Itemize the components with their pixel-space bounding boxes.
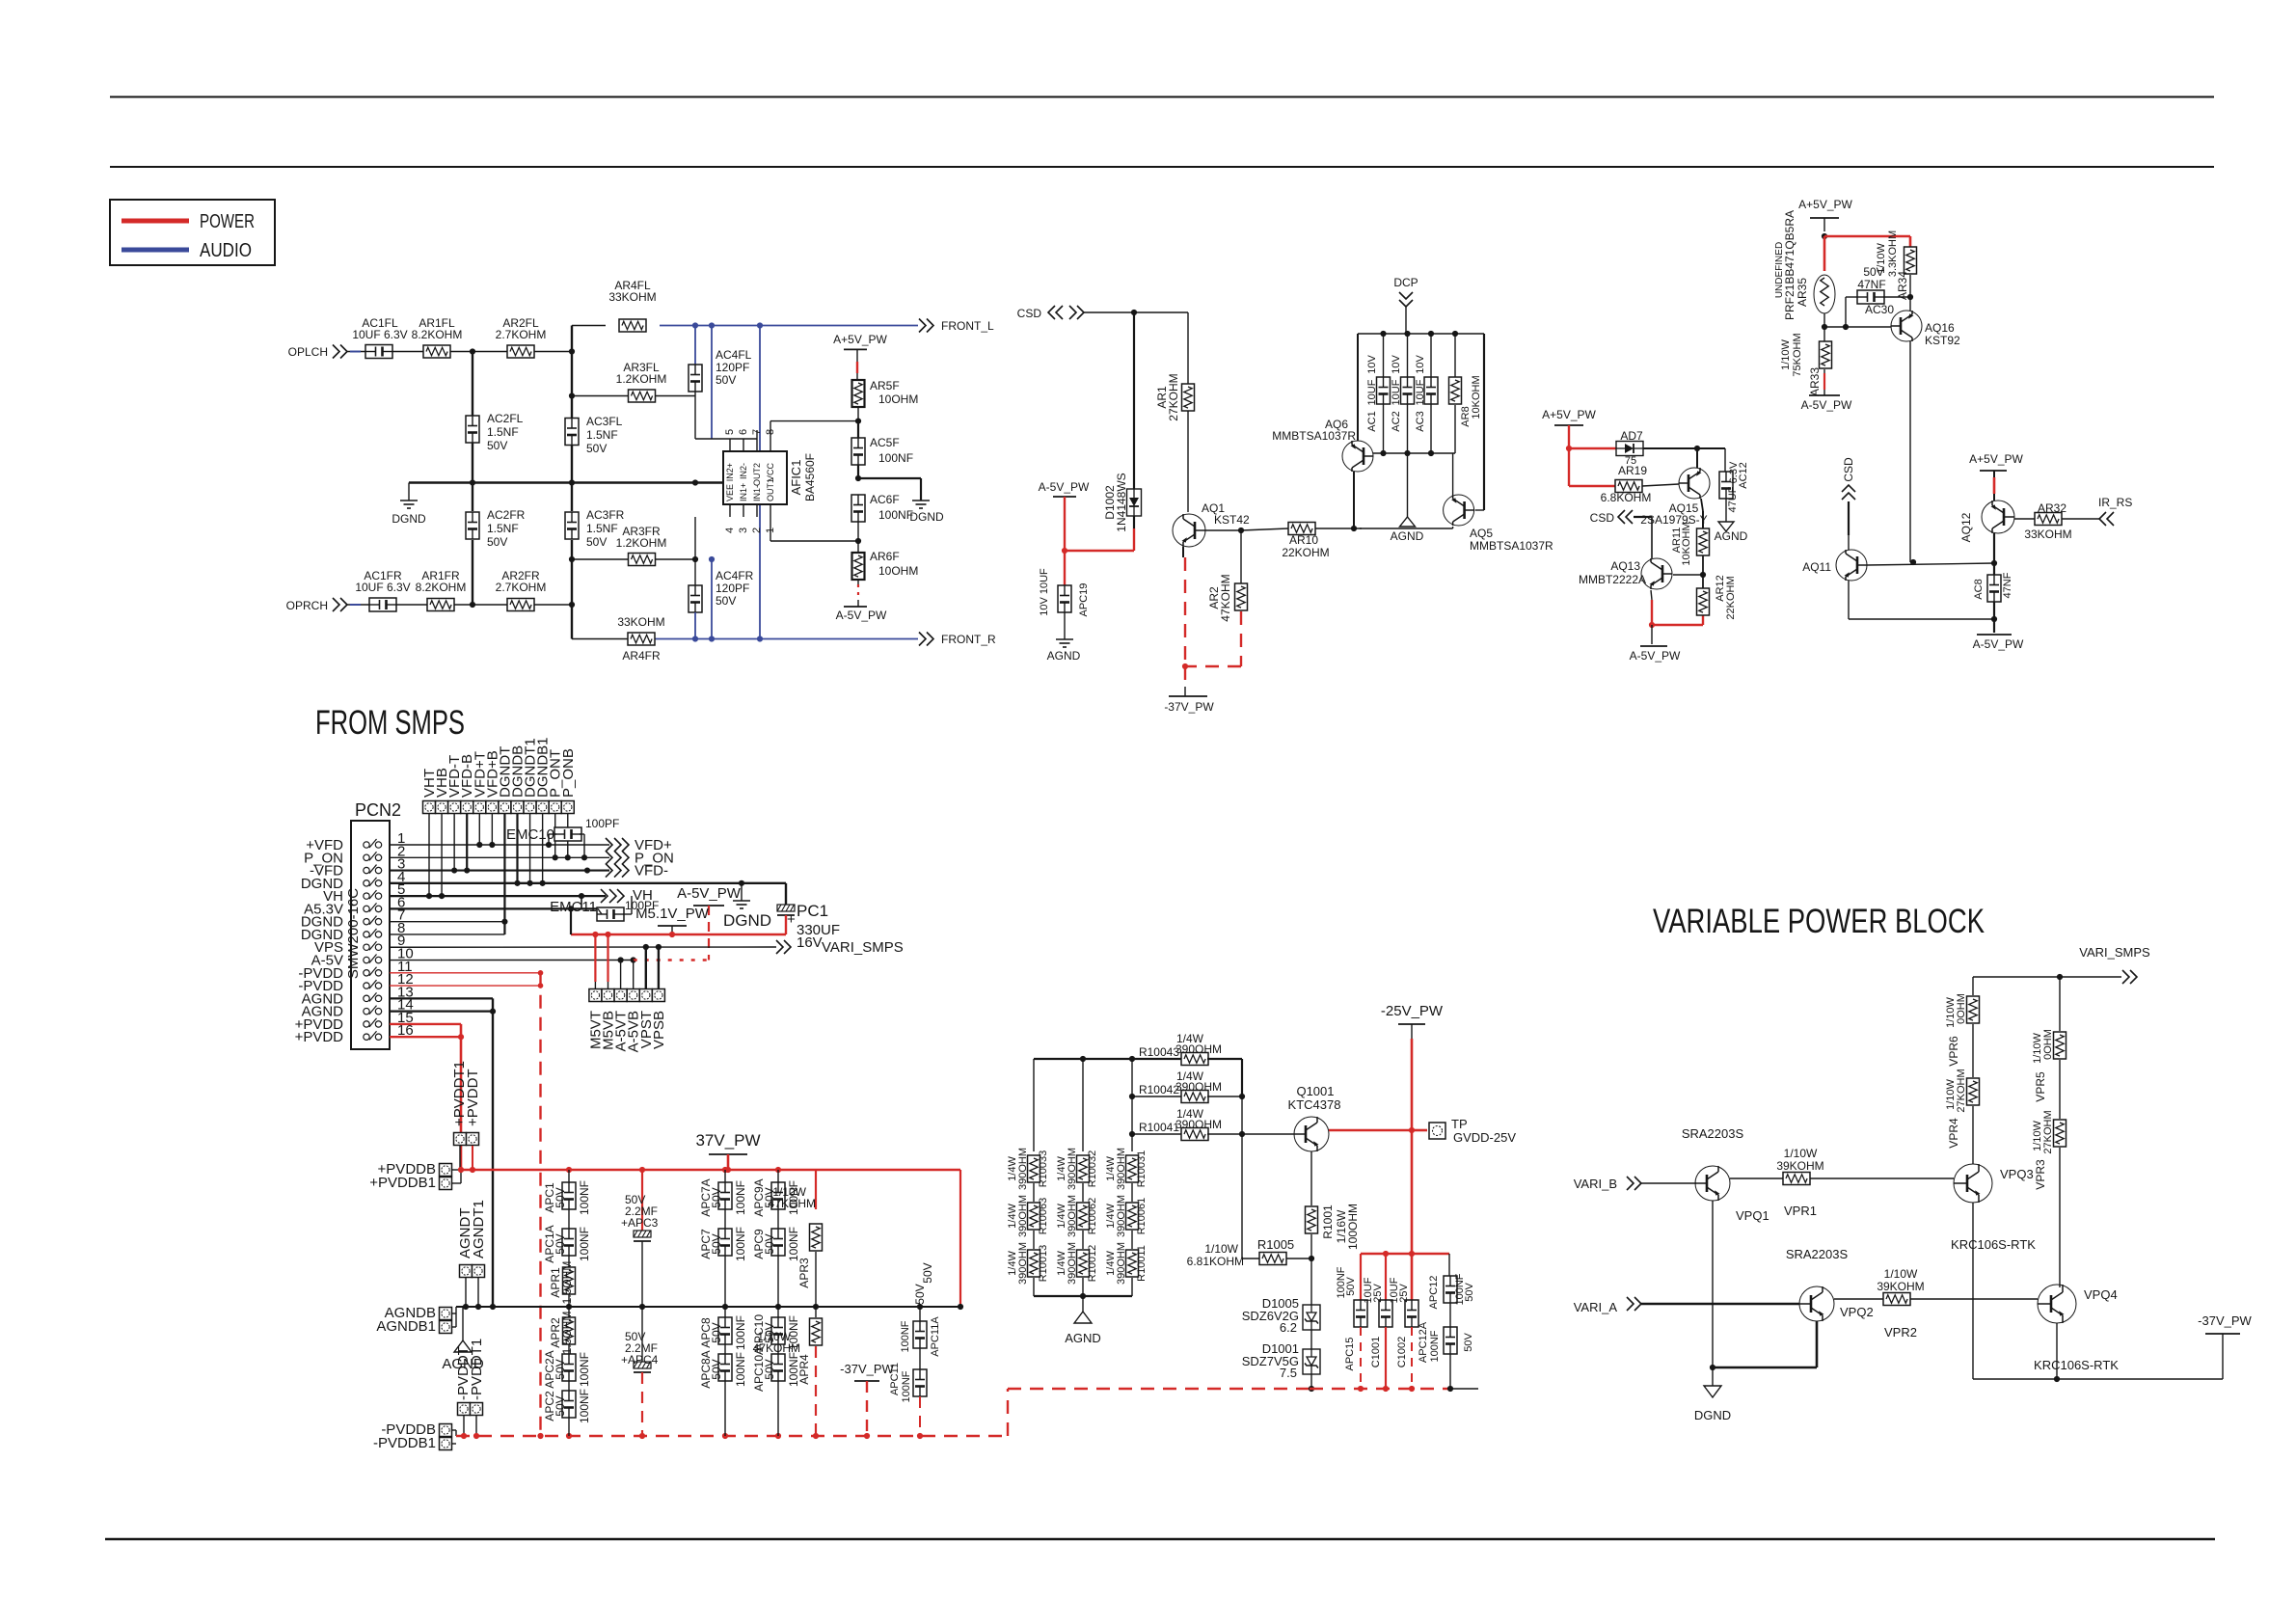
svg-text:R10063: R10063 — [1038, 1198, 1049, 1235]
ground DGND right — [909, 501, 944, 524]
wire Q1001 emitter red to TP — [1329, 1127, 1427, 1133]
wire AQ1 emitter dashes — [1182, 547, 1188, 696]
capacitor APC9A column — [752, 1170, 800, 1307]
wire VPB bottom rail — [1973, 1378, 2223, 1380]
svg-text:3: 3 — [738, 528, 749, 533]
svg-text:Q1001: Q1001 — [1296, 1084, 1334, 1098]
svg-text:AD7: AD7 — [1620, 429, 1643, 443]
capacitor APC10 column — [752, 1307, 800, 1436]
svg-text:AC1: AC1 — [1366, 411, 1378, 431]
svg-text:10OHM: 10OHM — [878, 392, 918, 406]
svg-text:CSD: CSD — [1590, 511, 1615, 525]
legend POWER red line — [122, 211, 255, 232]
svg-text:1.5NF: 1.5NF — [586, 428, 618, 442]
svg-text:MMBTSA1037R: MMBTSA1037R — [1470, 539, 1553, 553]
resistor R10041 — [1129, 1096, 1294, 1151]
wire AQ12 base to AR32 — [2014, 518, 2035, 520]
transistor VPQ1 — [1682, 1126, 1769, 1223]
wire red cap rail — [1361, 1251, 1449, 1300]
resistor APR2 column — [543, 1307, 591, 1436]
svg-text:AR19: AR19 — [1618, 464, 1647, 477]
svg-text:A-5V_PW: A-5V_PW — [1973, 637, 2024, 651]
node IR_RS — [2062, 496, 2132, 526]
wire red rail M5V — [568, 906, 786, 937]
svg-text:1.5NF: 1.5NF — [586, 522, 618, 535]
power A-5V_PW AQ13 — [1630, 625, 1681, 663]
ground AGND AC12 — [1715, 522, 1748, 543]
svg-text:10OHM: 10OHM — [878, 564, 918, 578]
svg-text:A-5V_PW: A-5V_PW — [1801, 398, 1852, 412]
svg-text:AQ5: AQ5 — [1470, 527, 1493, 540]
wire pin row 10 A-5V — [390, 957, 636, 962]
node VARI_SMPS left — [776, 939, 904, 956]
svg-text:-37V_PW: -37V_PW — [2198, 1313, 2252, 1328]
svg-text:390OHM: 390OHM — [1067, 1195, 1078, 1237]
svg-text:-37V_PW: -37V_PW — [1164, 700, 1214, 714]
wire FRONT_L rail — [572, 322, 918, 328]
power -25V_PW — [1381, 1003, 1444, 1300]
svg-text:R10032: R10032 — [1087, 1150, 1098, 1188]
ground DGND connector — [723, 883, 771, 930]
svg-text:AC3FR: AC3FR — [586, 508, 625, 522]
connector +PVDDT pair — [451, 1061, 481, 1170]
wire VPQ3 emitter — [1972, 1203, 1974, 1379]
svg-text:VARIABLE POWER BLOCK: VARIABLE POWER BLOCK — [1653, 903, 1985, 940]
ground AGND APC19 — [1047, 639, 1081, 663]
svg-text:OPRCH: OPRCH — [286, 599, 328, 612]
svg-text:100NF: 100NF — [787, 1227, 800, 1261]
svg-text:390OHM: 390OHM — [1017, 1195, 1029, 1237]
capacitor APC1 column — [543, 1170, 591, 1307]
svg-text:8.2KOHM: 8.2KOHM — [412, 328, 463, 341]
wire AQ12 collector down — [1993, 533, 1995, 576]
svg-text:100NF: 100NF — [901, 1370, 912, 1402]
svg-text:APC19: APC19 — [1078, 583, 1090, 617]
node VFD- — [606, 863, 668, 880]
svg-text:AQ12: AQ12 — [1959, 512, 1973, 542]
resistor AR11 10KOHM — [1671, 522, 1710, 565]
resistor AR2FR — [496, 569, 547, 611]
wire pin row 3 -VFD — [390, 867, 609, 873]
svg-text:AFIC1: AFIC1 — [789, 460, 803, 496]
svg-text:DGND: DGND — [1694, 1408, 1731, 1422]
svg-text:47KOHM: 47KOHM — [769, 1197, 816, 1210]
svg-text:7.5: 7.5 — [1280, 1366, 1297, 1380]
svg-text:100NF: 100NF — [578, 1180, 591, 1215]
wire DCP bottom rail — [1373, 452, 1455, 454]
svg-text:50V: 50V — [716, 373, 736, 387]
ground AGND DCP — [1391, 453, 1424, 543]
svg-text:AR32: AR32 — [2038, 501, 2066, 515]
capacitor AC30 47NF — [1846, 265, 1913, 327]
wire AGNDB black rail — [456, 1304, 963, 1310]
svg-text:AC2FR: AC2FR — [487, 508, 526, 522]
connector -PVDDT pair — [455, 1339, 485, 1436]
resistor AR34 3.3KOHM — [1876, 230, 1917, 311]
capacitor AC12 47UF — [1719, 448, 1749, 522]
svg-text:+PVDDT: +PVDDT — [465, 1069, 481, 1126]
svg-text:R10013: R10013 — [1038, 1245, 1049, 1283]
svg-text:6.2: 6.2 — [1280, 1320, 1297, 1335]
svg-text:50V: 50V — [554, 1359, 567, 1379]
resistor AR12 22KOHM — [1697, 575, 1738, 619]
svg-text:AGNDB1: AGNDB1 — [376, 1318, 436, 1335]
resistor column R10031 — [1105, 1148, 1148, 1296]
wire audio blue vertical — [759, 326, 761, 639]
svg-text:BA4560F: BA4560F — [803, 453, 817, 501]
wire red A-5V to diode — [1062, 497, 1134, 586]
power A+5V_PW AQ12 — [1969, 452, 2023, 501]
svg-text:VPR6: VPR6 — [1947, 1036, 1960, 1067]
svg-text:VPQ1: VPQ1 — [1736, 1208, 1769, 1223]
svg-text:KTC4378: KTC4378 — [1288, 1097, 1341, 1112]
capacitor AC8 47NF — [1973, 572, 2013, 602]
capacitor PC1 330UF — [777, 902, 840, 951]
svg-text:M5.1V_PW: M5.1V_PW — [635, 906, 710, 922]
ground AGND network — [1065, 1312, 1101, 1345]
resistor VPR4 — [1945, 1069, 1980, 1164]
wire to DGND right — [858, 478, 921, 501]
svg-text:39KOHM: 39KOHM — [1877, 1280, 1924, 1293]
svg-text:50V: 50V — [586, 535, 607, 549]
svg-text:33KOHM: 33KOHM — [2024, 528, 2071, 541]
wire pin row 1 +VFD — [390, 842, 609, 848]
svg-text:AGND: AGND — [1715, 529, 1748, 543]
svg-text:APC15: APC15 — [1344, 1338, 1356, 1371]
svg-text:SMW200-16C: SMW200-16C — [345, 888, 362, 979]
resistor VPR6 — [1945, 977, 1980, 1077]
resistor R10042 — [1129, 1059, 1245, 1134]
wire — [392, 351, 423, 353]
power A+5V_PW AD7 — [1542, 408, 1596, 425]
svg-text:GVDD-25V: GVDD-25V — [1453, 1130, 1516, 1145]
svg-text:VARI_SMPS: VARI_SMPS — [822, 939, 904, 956]
svg-text:10UF 6.3V: 10UF 6.3V — [352, 328, 407, 341]
svg-text:27KOHM: 27KOHM — [2042, 1110, 2054, 1153]
svg-text:VPR1: VPR1 — [1784, 1204, 1817, 1218]
power M5.1V_PW — [635, 906, 710, 934]
wire — [1064, 612, 1066, 639]
wire AR33 red bottom — [1823, 369, 1825, 395]
connector AGNDB pair — [376, 1305, 456, 1335]
svg-text:A+5V_PW: A+5V_PW — [1798, 198, 1852, 211]
wire CSD — [1084, 310, 1188, 315]
svg-text:1.5OHM: 1.5OHM — [560, 1261, 574, 1305]
legend AUDIO blue line — [122, 240, 252, 261]
svg-text:FROM SMPS: FROM SMPS — [315, 704, 465, 742]
capacitor APC11 — [889, 1348, 927, 1436]
svg-text:-25V_PW: -25V_PW — [1381, 1003, 1444, 1019]
svg-text:8.2KOHM: 8.2KOHM — [416, 581, 467, 594]
capacitor AC4FR — [689, 559, 754, 639]
svg-text:390OHM: 390OHM — [1017, 1242, 1029, 1285]
svg-text:AR6F: AR6F — [870, 550, 900, 563]
wire pin rows 7 8 DGND — [390, 919, 508, 934]
svg-text:390OHM: 390OHM — [1067, 1148, 1078, 1190]
svg-text:25V: 25V — [1398, 1284, 1410, 1303]
capacitor APC11A — [900, 1284, 941, 1356]
connector 6-pin M5V — [587, 989, 667, 1053]
svg-text:33KOHM: 33KOHM — [617, 615, 664, 629]
filter EMC10 — [506, 817, 619, 857]
svg-text:AGND: AGND — [1065, 1331, 1101, 1345]
wire CSD to AQ11 — [1848, 501, 1850, 550]
svg-text:AQ16: AQ16 — [1925, 321, 1955, 335]
power A-5V_PW APC19 — [1039, 480, 1090, 497]
capacitor AC3 10UF — [1415, 334, 1438, 456]
resistor AR10 22KOHM — [1282, 523, 1329, 560]
transistor Q1001 — [1288, 1084, 1341, 1151]
svg-text:AQ13: AQ13 — [1610, 559, 1640, 573]
svg-text:VPR3: VPR3 — [2034, 1159, 2047, 1190]
svg-text:AC4FL: AC4FL — [716, 348, 752, 362]
resistor APR4 — [753, 1307, 823, 1436]
svg-text:6.8KOHM: 6.8KOHM — [1601, 491, 1652, 504]
svg-text:1.2KOHM: 1.2KOHM — [616, 372, 667, 386]
svg-text:22KOHM: 22KOHM — [1282, 546, 1329, 559]
node CSD top — [1017, 306, 1084, 320]
page border bottom line — [105, 1538, 2215, 1540]
svg-text:100NF: 100NF — [578, 1389, 591, 1423]
svg-text:100NF: 100NF — [578, 1352, 591, 1387]
resistor R1005 — [1187, 1237, 1311, 1268]
resistor AR1FR — [416, 569, 467, 611]
svg-text:+APC4: +APC4 — [621, 1353, 659, 1367]
wire — [396, 604, 427, 606]
svg-text:390OHM: 390OHM — [1116, 1242, 1127, 1285]
power 37V_PW — [695, 1131, 760, 1170]
wire D1002 column — [1133, 312, 1135, 551]
svg-text:+PVDD: +PVDD — [295, 1029, 344, 1045]
svg-text:6.81KOHM: 6.81KOHM — [1187, 1255, 1244, 1268]
capacitor AC3FR — [565, 508, 625, 549]
svg-text:VPQ3: VPQ3 — [2000, 1167, 2034, 1181]
resistor AR3FR — [616, 525, 667, 566]
svg-text:IR_RS: IR_RS — [2098, 496, 2132, 509]
svg-text:1.5OHM: 1.5OHM — [560, 1312, 574, 1355]
svg-text:APC11A: APC11A — [930, 1316, 941, 1357]
wire CSD to AQ13 collector — [1634, 517, 1652, 558]
capacitor AC4FL — [689, 326, 752, 396]
svg-text:50V: 50V — [710, 1233, 723, 1254]
svg-text:AR4FR: AR4FR — [622, 649, 661, 663]
power A+5V_PW AR35 — [1798, 198, 1852, 239]
svg-text:1/10W: 1/10W — [1876, 242, 1887, 273]
filter EMC11 — [550, 896, 632, 921]
transistor AQ15 — [1640, 468, 1710, 527]
svg-text:AR10: AR10 — [1289, 533, 1318, 547]
svg-text:APR4: APR4 — [797, 1354, 811, 1385]
svg-text:AC3: AC3 — [1415, 411, 1426, 431]
wire 6pin connector drops — [595, 934, 659, 988]
svg-text:MMBTSA1037R: MMBTSA1037R — [1272, 429, 1356, 443]
svg-text:47UF: 47UF — [1727, 486, 1739, 512]
wire DCP top rail — [1358, 331, 1484, 337]
diode D1001 zener — [1242, 1341, 1320, 1392]
svg-text:0OHM: 0OHM — [2042, 1029, 2054, 1060]
svg-text:1/10W: 1/10W — [1204, 1242, 1238, 1256]
svg-text:PRF21BB471QB5RA: PRF21BB471QB5RA — [1783, 210, 1796, 320]
wire pin row 6 A5.3V to EMC11 — [390, 896, 598, 908]
svg-text:A-5V_PW: A-5V_PW — [836, 609, 887, 622]
svg-text:10KOHM: 10KOHM — [1471, 375, 1482, 419]
capacitor AC5F — [851, 421, 913, 482]
resistor AR1FL — [412, 316, 463, 358]
resistor VPR3 — [2032, 1110, 2066, 1287]
svg-text:FRONT_R: FRONT_R — [941, 633, 996, 646]
svg-text:50V: 50V — [710, 1322, 723, 1342]
wire cap bottom rail — [1310, 1386, 1478, 1392]
capacitor AC2 10UF — [1391, 355, 1415, 432]
svg-text:390OHM: 390OHM — [1175, 1118, 1222, 1131]
svg-text:AC8: AC8 — [1973, 579, 1985, 599]
svg-text:39KOHM: 39KOHM — [1776, 1159, 1823, 1173]
svg-text:AR33: AR33 — [1808, 367, 1822, 396]
svg-text:A+5V_PW: A+5V_PW — [1542, 408, 1596, 421]
wire AR35 junction to AQ16 base — [1824, 324, 1891, 330]
svg-text:VPQ4: VPQ4 — [2084, 1287, 2118, 1302]
node CSD right — [1842, 457, 1855, 500]
wire AC8 bottom rail — [1849, 581, 1997, 633]
diode D1005 zener — [1242, 1296, 1320, 1349]
svg-text:5: 5 — [724, 429, 736, 435]
svg-text:100NF: 100NF — [1429, 1330, 1441, 1362]
wire AQ11 base row — [1867, 560, 1997, 566]
svg-text:DCP: DCP — [1393, 276, 1418, 289]
ground DGND VPB — [1694, 1386, 1731, 1422]
svg-text:APC12A: APC12A — [1418, 1321, 1429, 1363]
svg-text:P_ONB: P_ONB — [560, 748, 577, 798]
wire network bottom rail — [1034, 1293, 1132, 1312]
wire AD7 to AQ15 — [1643, 446, 1725, 468]
wire FRONT_R rail — [572, 636, 918, 641]
svg-text:VPR2: VPR2 — [1884, 1325, 1917, 1340]
svg-text:VPQ2: VPQ2 — [1840, 1305, 1874, 1319]
svg-text:AC30: AC30 — [1865, 303, 1894, 316]
capacitor APC19 — [1039, 568, 1090, 616]
capacitor APC12A — [1418, 1321, 1474, 1389]
svg-text:10UF: 10UF — [1415, 379, 1426, 405]
ground DGND audio — [392, 483, 426, 527]
wire AR3FR row — [572, 517, 698, 562]
wire +PVDD red rail — [458, 1167, 960, 1307]
resistor AR33 75KOHM — [1780, 333, 1832, 396]
svg-text:100NF: 100NF — [578, 1227, 591, 1261]
capacitor APC15 — [1336, 1266, 1367, 1389]
wire -PVDD dashed rail — [456, 1389, 1310, 1439]
svg-text:100NF: 100NF — [878, 451, 913, 465]
resistor AR4FR — [617, 615, 664, 663]
transistor AQ13 — [1579, 558, 1672, 589]
svg-text:DGND: DGND — [909, 510, 944, 524]
resistor AR3FL — [616, 361, 667, 402]
transistor VPQ3 — [1951, 1164, 2036, 1252]
capacitor APC7A column — [699, 1170, 747, 1307]
svg-text:6: 6 — [738, 429, 749, 435]
svg-text:R1001: R1001 — [1321, 1204, 1335, 1239]
wire header column drops — [429, 814, 568, 934]
svg-text:75KOHM: 75KOHM — [1792, 333, 1803, 376]
transistor AQ12 — [1959, 501, 2014, 542]
svg-text:AGNDT1: AGNDT1 — [471, 1200, 487, 1259]
svg-text:R10031: R10031 — [1136, 1150, 1148, 1188]
transistor AQ16 — [1891, 311, 1960, 347]
svg-text:100NF: 100NF — [734, 1352, 747, 1387]
svg-text:-37V_PW: -37V_PW — [840, 1362, 894, 1376]
svg-text:OUT1: OUT1 — [766, 478, 775, 501]
wire pin row 2 P_ON — [390, 854, 609, 860]
svg-text:IN1+: IN1+ — [739, 483, 748, 501]
svg-text:50V: 50V — [763, 1359, 776, 1379]
wire AR35 bottom — [1822, 313, 1827, 343]
svg-text:KST92: KST92 — [1925, 334, 1960, 347]
ground AGND bank — [442, 1307, 484, 1372]
svg-text:VFD-: VFD- — [635, 863, 668, 880]
svg-text:50V: 50V — [1345, 1277, 1357, 1296]
svg-text:IN2-: IN2- — [739, 463, 748, 479]
diode AD7 — [1616, 429, 1643, 467]
connector -PVDDB pair — [373, 1421, 456, 1451]
wire chip to AR5F column — [770, 419, 861, 440]
svg-text:100OHM: 100OHM — [1346, 1204, 1360, 1250]
svg-text:EMC10: EMC10 — [506, 826, 554, 843]
power A-5V_PW connector — [677, 885, 742, 961]
capacitor AC3FL — [565, 415, 623, 455]
wire AR10 to block — [1315, 528, 1362, 529]
svg-text:R10041: R10041 — [1139, 1121, 1179, 1134]
svg-text:C1001: C1001 — [1370, 1337, 1382, 1367]
wire — [454, 602, 507, 608]
wire AR3FL row — [572, 396, 695, 440]
node FRONT_R — [919, 633, 996, 647]
capacitor APC8 column — [699, 1307, 747, 1436]
wire AQ1 base — [1205, 528, 1288, 533]
svg-text:KST42: KST42 — [1214, 513, 1250, 527]
svg-text:100NF: 100NF — [878, 508, 913, 522]
page border second line — [110, 166, 2214, 168]
connector AGNDT pair — [457, 1200, 487, 1307]
svg-text:0OHM: 0OHM — [1956, 993, 1967, 1024]
svg-text:KRC106S-RTK: KRC106S-RTK — [1951, 1237, 2036, 1252]
svg-text:VARI_B: VARI_B — [1574, 1177, 1617, 1191]
wire VPQ2 to VPR2 — [1834, 1298, 1883, 1300]
svg-text:+APC3: +APC3 — [621, 1216, 659, 1230]
svg-text:KRC106S-RTK: KRC106S-RTK — [2034, 1358, 2119, 1372]
node VARI_SMPS right — [1973, 945, 2150, 984]
svg-text:R10043: R10043 — [1139, 1045, 1179, 1059]
svg-text:50V: 50V — [586, 442, 607, 455]
svg-text:1/10W: 1/10W — [1784, 1147, 1818, 1160]
svg-text:390OHM: 390OHM — [1116, 1148, 1127, 1190]
node VFD+ — [606, 837, 672, 853]
svg-text:37V_PW: 37V_PW — [695, 1131, 760, 1150]
svg-text:47NF: 47NF — [1857, 278, 1885, 291]
svg-text:A+5V_PW: A+5V_PW — [1969, 452, 2023, 466]
svg-text:APC12: APC12 — [1428, 1276, 1440, 1310]
svg-text:VPR4: VPR4 — [1947, 1118, 1960, 1149]
svg-text:-PVDDB1: -PVDDB1 — [373, 1435, 436, 1451]
svg-text:10V: 10V — [1391, 355, 1402, 374]
legend box — [110, 200, 275, 265]
svg-text:16V: 16V — [797, 934, 823, 951]
svg-text:10UF: 10UF — [1391, 379, 1402, 405]
wire DGND rail — [409, 479, 723, 485]
svg-text:1.5NF: 1.5NF — [487, 425, 519, 439]
power -37V_PW VPB — [2198, 1313, 2252, 1379]
svg-text:2.7KOHM: 2.7KOHM — [496, 328, 547, 341]
svg-text:25V: 25V — [1372, 1284, 1384, 1303]
svg-text:APC11: APC11 — [889, 1363, 901, 1395]
